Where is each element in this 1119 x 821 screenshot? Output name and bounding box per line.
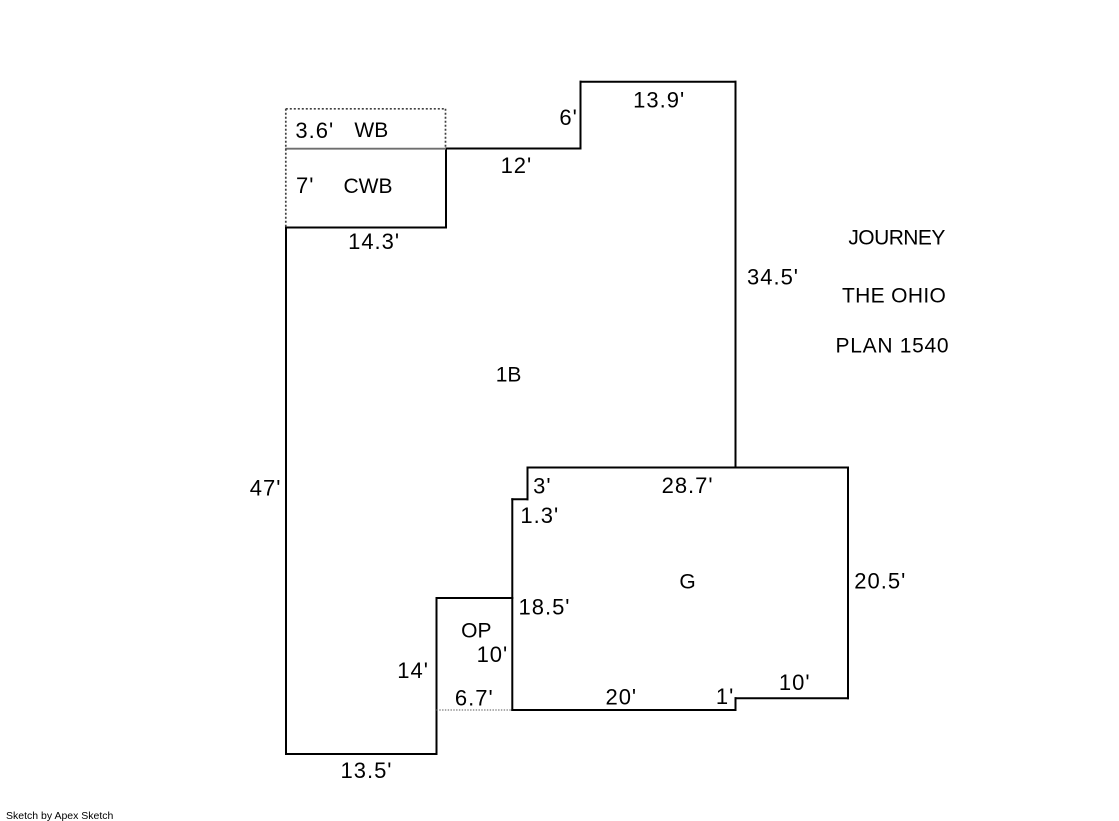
svg-text:1.3': 1.3'	[520, 503, 559, 528]
svg-text:13.9': 13.9'	[633, 88, 685, 113]
svg-text:13.5': 13.5'	[340, 758, 392, 783]
svg-text:1B: 1B	[496, 364, 522, 387]
svg-text:47': 47'	[250, 476, 282, 501]
svg-text:G: G	[679, 571, 695, 594]
svg-text:18.5': 18.5'	[518, 594, 570, 619]
svg-text:JOURNEY: JOURNEY	[848, 227, 945, 250]
svg-text:12': 12'	[501, 153, 533, 178]
svg-text:10': 10'	[477, 642, 509, 667]
svg-text:10': 10'	[779, 670, 811, 695]
svg-text:20.5': 20.5'	[854, 568, 906, 593]
svg-text:Sketch by Apex Sketch: Sketch by Apex Sketch	[6, 810, 114, 821]
svg-text:6.7': 6.7'	[455, 685, 494, 710]
svg-text:3.6': 3.6'	[295, 118, 334, 143]
svg-text:6': 6'	[559, 105, 577, 130]
svg-text:28.7': 28.7'	[662, 473, 714, 498]
svg-text:3': 3'	[533, 473, 551, 498]
svg-text:7': 7'	[296, 173, 314, 198]
svg-text:14': 14'	[397, 658, 429, 683]
svg-text:14.3': 14.3'	[348, 229, 400, 254]
svg-text:20': 20'	[605, 684, 637, 709]
svg-text:THE OHIO: THE OHIO	[842, 284, 946, 307]
svg-text:WB: WB	[354, 119, 388, 142]
svg-text:34.5': 34.5'	[747, 264, 799, 289]
svg-text:CWB: CWB	[344, 175, 393, 198]
svg-text:PLAN 1540: PLAN 1540	[836, 334, 950, 357]
svg-text:1': 1'	[716, 684, 734, 709]
svg-text:OP: OP	[461, 620, 491, 643]
